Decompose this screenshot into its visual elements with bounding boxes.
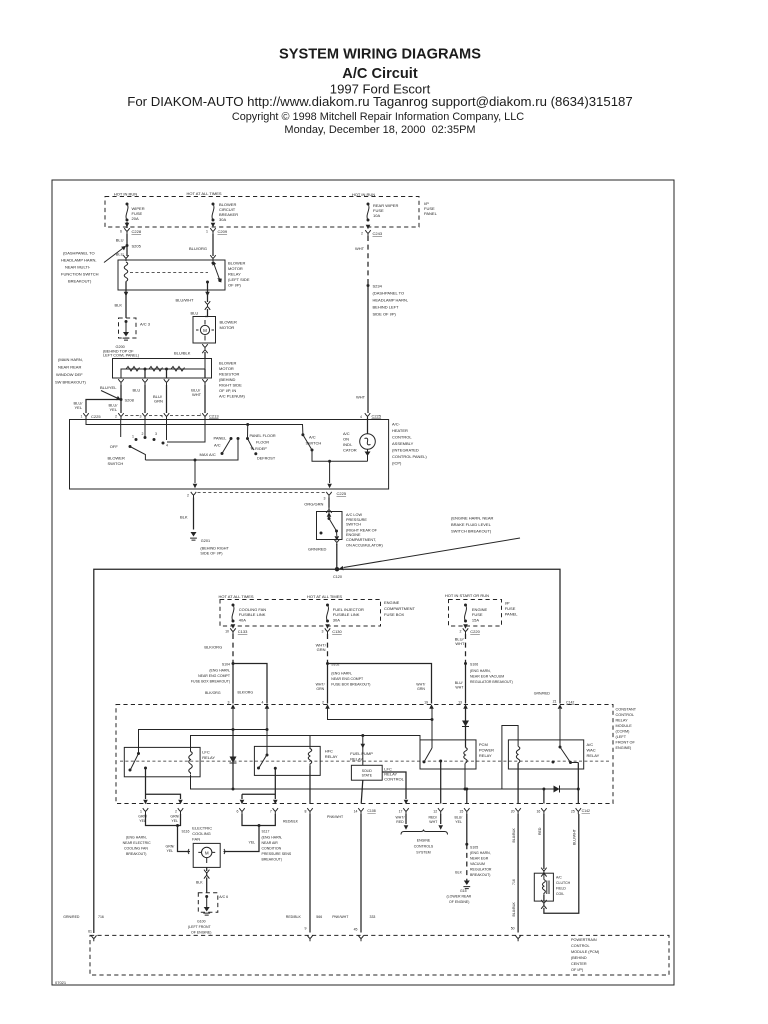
svg-text:COOLING: COOLING	[192, 831, 210, 836]
CCRM contact feed bus	[139, 708, 268, 754]
svg-text:MODULE (PCM): MODULE (PCM)	[571, 950, 600, 954]
svg-text:SOLID: SOLID	[362, 769, 373, 773]
svg-text:CONTROLS: CONTROLS	[414, 845, 434, 849]
svg-text:BLOWER: BLOWER	[219, 361, 236, 366]
svg-text:BLOWER: BLOWER	[108, 456, 125, 461]
svg-text:30A: 30A	[219, 217, 226, 222]
svg-text:ENGINE: ENGINE	[346, 533, 361, 537]
svg-text:BLK: BLK	[455, 870, 462, 874]
svg-text:HEATER: HEATER	[392, 428, 408, 433]
svg-text:BLU/ORG: BLU/ORG	[189, 246, 207, 251]
svg-text:WHT/: WHT/	[316, 683, 325, 687]
svg-text:RELAY: RELAY	[228, 272, 241, 277]
A/C WAC relay box	[508, 740, 583, 769]
svg-text:(ENG HARN,: (ENG HARN,	[126, 836, 147, 840]
svg-text:C120: C120	[333, 575, 342, 579]
wire BLK dashed to ground G15	[466, 844, 468, 880]
arrow from note to S205	[104, 249, 123, 263]
svg-text:A/C: A/C	[214, 443, 221, 448]
blower switch output bus	[145, 439, 238, 461]
relay output arrows	[124, 292, 129, 296]
svg-text:BLK: BLK	[180, 515, 188, 520]
blower motor relay U-relay box	[118, 260, 225, 290]
wire BLU/WHT from S106 to CCRM pin 13	[465, 664, 467, 704]
svg-text:C225: C225	[372, 413, 382, 418]
svg-text:3: 3	[140, 415, 142, 419]
svg-text:333: 333	[370, 915, 376, 919]
svg-text:SIDE OF I/P): SIDE OF I/P)	[373, 312, 397, 317]
svg-text:OF I/P): OF I/P)	[571, 968, 584, 972]
wires to C213	[121, 385, 205, 413]
svg-text:1: 1	[200, 413, 202, 417]
junction C120	[336, 568, 339, 571]
svg-text:4: 4	[161, 415, 163, 419]
svg-text:CONTROL: CONTROL	[384, 777, 404, 782]
svg-text:NEAR REAR: NEAR REAR	[58, 365, 81, 370]
svg-text:(LEFT: (LEFT	[616, 735, 627, 739]
svg-text:25: 25	[571, 810, 575, 814]
svg-text:ORG/GRN: ORG/GRN	[304, 501, 323, 506]
svg-text:YEL: YEL	[167, 849, 174, 853]
svg-text:BLU/WHT: BLU/WHT	[176, 298, 195, 303]
svg-text:SYSTEM WIRING DIAGRAMS: SYSTEM WIRING DIAGRAMS	[279, 46, 481, 62]
A/C WAC relay switch	[560, 709, 578, 763]
svg-text:NEAR ENG COMPT: NEAR ENG COMPT	[198, 674, 231, 678]
svg-text:17: 17	[399, 810, 403, 814]
svg-text:ELECTRIC: ELECTRIC	[192, 825, 212, 830]
inline connector pair on blower feed	[205, 301, 210, 307]
diode on pin 13 leg	[465, 708, 467, 748]
svg-text:WHT/: WHT/	[416, 683, 425, 687]
svg-text:RELAY: RELAY	[479, 753, 492, 758]
svg-text:HOT AT ALL TIMES: HOT AT ALL TIMES	[218, 594, 253, 599]
svg-text:RED: RED	[396, 820, 404, 824]
svg-text:BREAKOUT): BREAKOUT)	[470, 873, 490, 877]
svg-text:C225: C225	[91, 414, 101, 419]
HFC relay box	[254, 746, 320, 775]
svg-text:HOT IN RUN: HOT IN RUN	[114, 192, 137, 197]
svg-text:YEL: YEL	[171, 819, 178, 823]
blower circuit breaker 30A	[212, 203, 215, 222]
svg-text:I/P: I/P	[505, 601, 510, 606]
svg-text:S106: S106	[470, 663, 478, 667]
svg-text:3: 3	[155, 432, 157, 436]
svg-text:RED/: RED/	[429, 815, 437, 819]
relay switch	[213, 262, 221, 283]
svg-text:9: 9	[305, 927, 307, 931]
svg-text:8: 8	[305, 810, 307, 814]
A/C WAC relay output leg	[577, 763, 579, 804]
diode on LFC control leg	[232, 730, 234, 790]
svg-text:BLU/BLK: BLU/BLK	[512, 901, 516, 916]
HFC relay switch	[259, 730, 268, 769]
svg-text:A/C Circuit: A/C Circuit	[342, 66, 418, 82]
svg-text:12: 12	[433, 810, 437, 814]
mode selector function switch	[246, 423, 249, 426]
wires GRN/YEL from pins 1 2 merging	[146, 814, 191, 852]
svg-text:C243: C243	[373, 231, 383, 236]
svg-text:(ENG HARN,: (ENG HARN,	[209, 669, 230, 673]
svg-text:PANEL: PANEL	[214, 435, 228, 440]
svg-text:4: 4	[360, 415, 362, 419]
splice S102	[326, 662, 329, 665]
svg-text:COOLING FAN: COOLING FAN	[124, 847, 148, 851]
blower motor resistor box	[113, 359, 212, 379]
svg-text:2: 2	[175, 810, 177, 814]
LFC relay switch	[130, 754, 139, 771]
A/C low pressure switch box	[326, 507, 331, 513]
svg-text:GRN: GRN	[316, 687, 324, 691]
splice S234	[367, 284, 370, 287]
svg-text:MOTOR: MOTOR	[228, 266, 243, 271]
svg-text:C142: C142	[582, 809, 590, 813]
svg-text:SYSTEM: SYSTEM	[416, 851, 430, 855]
svg-text:BLK/ORG: BLK/ORG	[238, 690, 254, 694]
ground G15	[463, 881, 470, 889]
A/C WAC relay coil	[516, 746, 520, 763]
svg-text:OF ENGINE): OF ENGINE)	[449, 900, 469, 904]
engine compartment fuse box dashed box	[220, 600, 381, 627]
wire from pin 15 inside CCRM	[466, 789, 468, 804]
HFC coil output wire to pin 8	[309, 766, 311, 804]
diode on output bus	[554, 786, 560, 793]
svg-text:BLU/: BLU/	[455, 681, 463, 685]
A/C-heater control assembly (ICP) box	[70, 420, 389, 490]
svg-text:HFC: HFC	[325, 749, 333, 754]
blower motor box	[193, 317, 216, 344]
svg-text:A/C 6: A/C 6	[219, 895, 228, 899]
svg-text:C220: C220	[470, 629, 480, 634]
svg-text:3: 3	[228, 701, 230, 705]
A/C switch	[301, 433, 304, 436]
svg-text:FUSIBLE LINK: FUSIBLE LINK	[239, 612, 266, 617]
wire BLU/WHT return from clutch to pin 25	[544, 814, 579, 913]
svg-text:GRN: GRN	[317, 647, 326, 652]
svg-text:20A: 20A	[132, 216, 139, 221]
ground G201	[190, 532, 197, 540]
svg-text:RELAY: RELAY	[587, 753, 600, 758]
svg-text:566: 566	[316, 915, 322, 919]
svg-text:A/C: A/C	[343, 431, 350, 436]
breakout pointer line to C120	[344, 538, 521, 568]
svg-text:(CCRM): (CCRM)	[616, 730, 631, 734]
svg-text:16: 16	[536, 810, 540, 814]
wire BLK from ICP to G201	[193, 498, 195, 530]
fuel pump relay output to pin 17	[382, 772, 406, 799]
svg-text:COIL: COIL	[556, 892, 564, 896]
wire RED from pin 16 to A/C clutch	[543, 814, 545, 869]
svg-text:SWITCH: SWITCH	[346, 523, 361, 527]
svg-text:NEAR MULTI-: NEAR MULTI-	[65, 265, 91, 270]
electric cooling fan motor	[187, 849, 190, 854]
PCM power relay box	[420, 740, 476, 769]
svg-text:BLU/BLK: BLU/BLK	[512, 827, 516, 842]
svg-text:A/C 3: A/C 3	[140, 322, 151, 327]
svg-text:HOT IN RUN: HOT IN RUN	[352, 192, 375, 197]
svg-text:CLUTCH: CLUTCH	[556, 881, 571, 885]
svg-text:S104: S104	[222, 663, 230, 667]
svg-text:BLOWER: BLOWER	[220, 320, 237, 325]
svg-text:14: 14	[354, 810, 358, 814]
svg-text:BLK/ORG: BLK/ORG	[204, 644, 222, 649]
svg-text:4: 4	[166, 444, 168, 448]
svg-text:FUEL PUMP: FUEL PUMP	[350, 751, 373, 756]
svg-text:PANEL: PANEL	[505, 612, 519, 617]
svg-text:NEAR EGR: NEAR EGR	[470, 857, 489, 861]
svg-text:NEAR AIR: NEAR AIR	[262, 841, 279, 845]
svg-text:BRAKE FLUID LEVEL: BRAKE FLUID LEVEL	[451, 522, 492, 527]
wire YEL from pins 6 7 merging to fan	[224, 814, 276, 852]
svg-text:YEL: YEL	[139, 819, 146, 823]
svg-text:'FLR/DEF': 'FLR/DEF'	[250, 447, 268, 451]
svg-text:VACUUM: VACUUM	[470, 862, 485, 866]
splice S205	[126, 244, 129, 247]
svg-text:15A: 15A	[472, 618, 479, 623]
svg-text:WHT: WHT	[355, 246, 365, 251]
svg-text:WHT: WHT	[356, 395, 366, 400]
A/C WAC relay coil return to pin 20	[517, 764, 519, 804]
svg-text:HOT IN START OR RUN: HOT IN START OR RUN	[445, 593, 489, 598]
svg-text:G15: G15	[460, 889, 467, 893]
svg-text:PNK/WHT: PNK/WHT	[327, 815, 344, 819]
svg-text:FUSE BOX BREAKOUT): FUSE BOX BREAKOUT)	[191, 680, 230, 684]
svg-text:RELAY: RELAY	[616, 719, 629, 723]
svg-text:MODULE: MODULE	[616, 724, 633, 728]
svg-text:YEL: YEL	[249, 841, 256, 845]
PCM power relay switch	[424, 748, 432, 762]
svg-text:MAX A/C: MAX A/C	[200, 452, 216, 457]
svg-text:BEHIND LEFT: BEHIND LEFT	[373, 305, 400, 310]
CCRM coil feed bus	[191, 736, 421, 752]
svg-text:CATOR: CATOR	[343, 448, 357, 453]
svg-text:CONTROL PANEL): CONTROL PANEL)	[392, 454, 427, 459]
svg-text:1: 1	[140, 810, 142, 814]
svg-text:OF I/P): OF I/P)	[228, 283, 242, 288]
inline connector pair below motor	[202, 344, 207, 350]
svg-text:A/C-: A/C-	[392, 422, 401, 427]
svg-text:CONTROL: CONTROL	[571, 944, 590, 948]
wires WHT/RED and RED/WHT to engine controls system	[406, 814, 441, 824]
WHT/GRN bus pins 2 and 19	[328, 708, 433, 720]
svg-text:RELAY: RELAY	[350, 757, 363, 762]
ICP internal feed bus	[86, 420, 303, 435]
svg-text:6: 6	[237, 810, 239, 814]
svg-text:WHT: WHT	[192, 392, 202, 397]
svg-text:G100: G100	[197, 920, 206, 924]
svg-text:A/C LOW: A/C LOW	[346, 513, 362, 517]
svg-text:45: 45	[354, 928, 358, 932]
svg-text:LEFT COWL PANEL): LEFT COWL PANEL)	[103, 354, 140, 358]
svg-text:MOTOR: MOTOR	[219, 366, 234, 371]
svg-text:GRN/: GRN/	[170, 814, 179, 818]
connector below pressure switch	[334, 539, 339, 545]
svg-text:C108: C108	[367, 809, 375, 813]
svg-text:6: 6	[120, 230, 122, 234]
wire BLU from C228 to S205	[126, 222, 128, 256]
wire PNK/WHT from pin 14 to PCM	[360, 814, 362, 933]
svg-text:2: 2	[142, 432, 144, 436]
svg-text:C228: C228	[132, 229, 142, 234]
svg-text:S205: S205	[132, 244, 142, 249]
wire RED/BLK from pin 8 to PCM	[309, 814, 311, 933]
ground G200	[123, 332, 130, 340]
rear wiper fuse 10A	[367, 203, 370, 222]
svg-text:3: 3	[322, 630, 324, 634]
LFC relay output to pins 1 and 2	[146, 768, 181, 799]
splice S104	[232, 662, 235, 665]
svg-text:C225: C225	[337, 491, 347, 496]
svg-text:For DIAKOM-AUTO http://www.dia: For DIAKOM-AUTO http://www.diakom.ru Tag…	[127, 94, 632, 109]
svg-text:YEL: YEL	[75, 405, 83, 410]
svg-text:(DASHPANEL TO: (DASHPANEL TO	[373, 291, 405, 296]
svg-text:10: 10	[225, 630, 229, 634]
svg-text:RED/BLK: RED/BLK	[283, 819, 299, 823]
svg-text:BLK: BLK	[115, 303, 123, 308]
svg-text:(LEFT SIDE: (LEFT SIDE	[228, 277, 250, 282]
svg-text:A/C: A/C	[309, 435, 316, 440]
HFC relay output to pins 6 and 7	[242, 768, 275, 799]
svg-text:INDI-: INDI-	[343, 442, 353, 447]
svg-text:BLK/ORG: BLK/ORG	[205, 691, 221, 695]
svg-text:HEADLAMP HARN,: HEADLAMP HARN,	[61, 258, 97, 263]
svg-text:7: 7	[270, 810, 272, 814]
wire GRN/RED main run from C120 left and right	[94, 569, 560, 933]
svg-text:A/C: A/C	[556, 876, 562, 880]
svg-text:REGULATOR BREAKOUT): REGULATOR BREAKOUT)	[470, 680, 513, 684]
svg-text:ENGINE): ENGINE)	[616, 746, 633, 750]
svg-text:BREAKOUT): BREAKOUT)	[262, 858, 282, 862]
svg-text:BLU/YEL: BLU/YEL	[100, 385, 117, 390]
svg-text:(INTEGRATED: (INTEGRATED	[392, 448, 419, 453]
svg-text:BLU/: BLU/	[455, 815, 463, 819]
svg-text:COMPARTMENT: COMPARTMENT	[384, 606, 416, 611]
svg-text:PNK/WHT: PNK/WHT	[332, 915, 349, 919]
svg-text:PCM: PCM	[479, 742, 488, 747]
svg-text:1: 1	[206, 230, 208, 234]
svg-text:CONSTANT: CONSTANT	[616, 708, 637, 712]
svg-text:(BEHIND: (BEHIND	[219, 377, 236, 382]
svg-text:FUSE: FUSE	[505, 606, 516, 611]
wire BLU/BLK from pin 20 to PCM	[517, 814, 519, 933]
svg-text:FUSE: FUSE	[472, 612, 483, 617]
splice S208	[120, 398, 123, 401]
brace engine controls system	[401, 830, 448, 835]
svg-text:SW BREAKOUT): SW BREAKOUT)	[55, 380, 87, 385]
svg-text:G201: G201	[201, 539, 210, 543]
svg-text:RELAY: RELAY	[325, 754, 338, 759]
svg-text:BLK: BLK	[196, 881, 203, 885]
svg-text:FAN: FAN	[192, 836, 200, 841]
svg-text:PANEL FLOOR: PANEL FLOOR	[250, 434, 276, 438]
blower switch contacts	[135, 438, 138, 441]
svg-text:OF ENGINE): OF ENGINE)	[191, 931, 211, 935]
A/C on indicator lamp	[367, 418, 369, 434]
LFC relay coil	[189, 752, 193, 775]
svg-text:SWITCH: SWITCH	[108, 461, 124, 466]
svg-text:GRN/RED: GRN/RED	[534, 692, 551, 696]
svg-text:FRONT OF: FRONT OF	[616, 741, 636, 745]
svg-text:C213: C213	[209, 414, 219, 419]
wire BLU/YEL branch from S208 to C225 pin 1	[86, 400, 121, 414]
svg-text:SWITCH: SWITCH	[306, 441, 322, 446]
fuel injector fusible link 30A	[326, 604, 329, 623]
svg-text:A/C PLENUM): A/C PLENUM)	[219, 394, 245, 399]
svg-text:HOT AT ALL TIMES: HOT AT ALL TIMES	[186, 191, 221, 196]
svg-text:M: M	[203, 328, 207, 333]
svg-text:ON: ON	[343, 437, 349, 442]
wire to pin 16	[543, 789, 545, 804]
svg-text:(LOWER REAR: (LOWER REAR	[447, 895, 472, 899]
svg-text:RELAY: RELAY	[202, 755, 215, 760]
svg-text:GRN/: GRN/	[166, 844, 175, 848]
svg-text:C133: C133	[238, 629, 248, 634]
svg-text:BLU: BLU	[116, 238, 124, 243]
solid state LFC relay control box	[362, 736, 364, 766]
svg-text:RESISTOR: RESISTOR	[219, 372, 239, 377]
svg-text:FUSIBLE LINK: FUSIBLE LINK	[333, 612, 360, 617]
wire BLK/ORG pair from S104 to CCRM pins 3 and 4	[233, 664, 267, 704]
mode selector MAX A/C cluster	[230, 437, 233, 440]
ICP bottom connector C225 pin 3	[326, 492, 331, 498]
svg-text:RED/BLK: RED/BLK	[286, 915, 302, 919]
svg-text:ON ACCUMULATOR): ON ACCUMULATOR)	[346, 544, 384, 548]
svg-text:10A: 10A	[373, 213, 380, 218]
svg-text:15: 15	[459, 810, 463, 814]
svg-text:HEADLAMP HARN,: HEADLAMP HARN,	[373, 298, 409, 303]
svg-text:NEAR ELECTRIC: NEAR ELECTRIC	[123, 841, 151, 845]
svg-text:GRN/: GRN/	[138, 814, 147, 818]
svg-text:S116: S116	[182, 830, 190, 834]
svg-text:716: 716	[512, 879, 516, 885]
svg-text:S234: S234	[373, 284, 383, 289]
arrow from note to S208	[101, 391, 117, 399]
svg-text:30A: 30A	[333, 618, 340, 623]
svg-text:PANEL: PANEL	[424, 211, 438, 216]
svg-text:CENTER: CENTER	[571, 962, 587, 966]
wire BLK/ORG dashed from C133 to S104	[232, 634, 234, 664]
PCM power relay coil return	[464, 764, 466, 789]
svg-text:PRESSURE: PRESSURE	[346, 518, 367, 522]
relay coil	[124, 262, 128, 287]
svg-text:CONTROL: CONTROL	[616, 713, 635, 717]
svg-text:19: 19	[424, 701, 428, 705]
svg-text:S105: S105	[470, 846, 478, 850]
wire BLK from relay to A/C 3	[126, 282, 208, 318]
svg-text:COMPARTMENT,: COMPARTMENT,	[346, 538, 376, 542]
svg-text:(DASHPANEL TO: (DASHPANEL TO	[63, 251, 95, 256]
svg-text:(RIGHT REAR OF: (RIGHT REAR OF	[346, 528, 378, 532]
svg-text:FLOOR: FLOOR	[256, 441, 269, 445]
svg-text:FIELD: FIELD	[556, 887, 566, 891]
svg-text:2: 2	[187, 493, 189, 497]
svg-text:(LEFT FRONT: (LEFT FRONT	[188, 925, 212, 929]
wire WHT/GRN dashed from C130 to S102	[327, 634, 329, 664]
svg-text:(ENGINE HARN, NEAR: (ENGINE HARN, NEAR	[451, 516, 494, 521]
wire BLU/ORG from C209 to relay	[212, 234, 214, 256]
svg-text:M: M	[205, 851, 209, 856]
wire WHT/GRN pair from S102 to CCRM pins 2 and 19	[328, 664, 432, 704]
solid state output to pin 14	[361, 780, 363, 803]
LFC relay box	[124, 747, 200, 776]
svg-text:POWERTRAIN: POWERTRAIN	[571, 938, 597, 942]
CCRM dashed module box	[116, 705, 613, 804]
svg-text:GRN: GRN	[154, 399, 163, 404]
splice S105	[465, 843, 468, 846]
svg-text:BLU: BLU	[133, 388, 141, 393]
svg-text:21: 21	[553, 700, 557, 704]
resistor elements	[121, 359, 205, 379]
svg-text:ENGINE: ENGINE	[384, 600, 400, 605]
